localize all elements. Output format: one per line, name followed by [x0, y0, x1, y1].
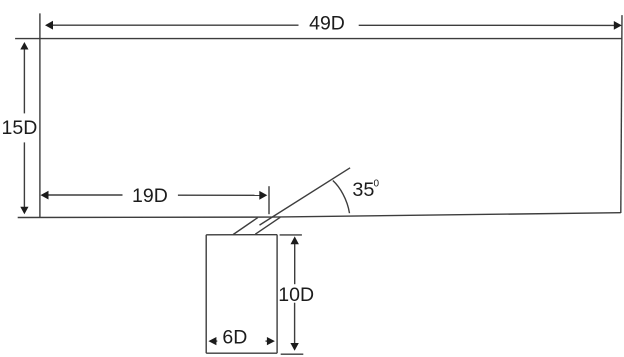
- wire dim 19D shaft right: [178, 194, 262, 196]
- arrowhead 19D right: [259, 191, 267, 200]
- wire inlet rect left edge: [205, 235, 207, 353]
- wire dim 15D shaft lower: [23, 142, 25, 208]
- arrowhead 19D left: [41, 191, 49, 200]
- svg-text:35: 35: [352, 179, 374, 201]
- wire inlet rect right edge: [276, 235, 278, 354]
- wire dim 15D shaft upper: [23, 48, 25, 114]
- arrowhead 49D left: [45, 21, 53, 30]
- wire dim 10D shaft lower: [294, 303, 296, 345]
- wire angle reference line 35 deg: [260, 168, 351, 225]
- svg-text:6D: 6D: [222, 327, 247, 349]
- wire dim 10D shaft upper: [294, 244, 296, 285]
- wire domain bottom edge right part: [272, 213, 621, 217]
- wire domain left edge: [39, 13, 41, 217]
- arrowhead 6D right: [267, 337, 275, 345]
- wire dim 6D shaft right: [266, 340, 269, 342]
- wire domain top edge: [15, 38, 622, 40]
- svg-text:49D: 49D: [309, 12, 345, 34]
- arrowhead 15D up: [20, 42, 28, 50]
- wire angle arc: [333, 181, 350, 214]
- wire domain bottom edge left part: [18, 216, 273, 218]
- arrowhead 10D down: [290, 343, 298, 351]
- wire dim 10D extension top: [280, 234, 302, 236]
- wire slot right line: [255, 217, 280, 234]
- svg-text:15D: 15D: [2, 117, 38, 139]
- wire dim 10D extension bottom: [281, 353, 304, 355]
- arrowhead 10D up: [291, 236, 299, 244]
- wire inlet rect bottom edge: [206, 352, 277, 354]
- svg-text:0: 0: [374, 179, 380, 190]
- svg-text:19D: 19D: [132, 185, 168, 207]
- wire dim 19D extension tick: [268, 186, 270, 214]
- wire dim 49D shaft left: [50, 24, 299, 26]
- wire inlet rect top edge: [206, 234, 277, 236]
- svg-text:10D: 10D: [278, 284, 314, 306]
- arrowhead 15D down: [20, 207, 28, 215]
- wire dim 6D shaft left: [215, 340, 217, 342]
- wire slot left line: [233, 218, 258, 235]
- wire domain right edge: [621, 15, 622, 213]
- wire dim 19D shaft left: [47, 194, 123, 196]
- arrowhead 49D right: [614, 21, 622, 30]
- wire dim 49D shaft right: [359, 24, 616, 26]
- arrowhead 6D left: [208, 337, 216, 345]
